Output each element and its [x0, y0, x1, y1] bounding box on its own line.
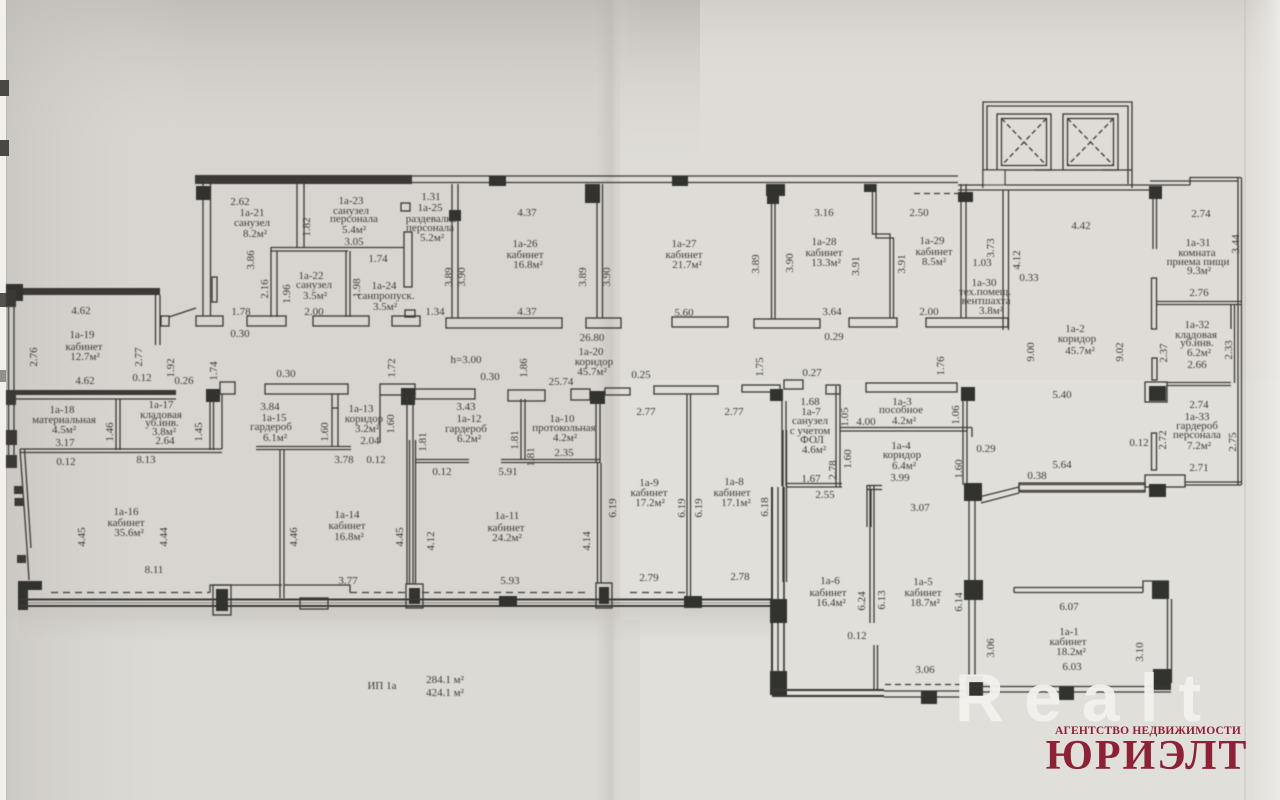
bar footing bottom wall left [300, 598, 328, 609]
svg-text:0.12: 0.12 [56, 456, 75, 468]
svg-text:0.26: 0.26 [174, 375, 194, 387]
svg-text:0.12: 0.12 [366, 454, 385, 466]
svg-text:18.2м²: 18.2м² [1056, 646, 1086, 658]
svg-text:2.37: 2.37 [1158, 343, 1170, 363]
room 1a-31 left wall [1152, 199, 1154, 249]
white page left edge [0, 0, 6, 800]
svg-text:3.07: 3.07 [910, 502, 930, 514]
footing under wall 28/29 [849, 318, 897, 327]
footing under wall 27/28 [754, 319, 820, 328]
main left outer wall slanted [20, 449, 27, 548]
room 1a-11 right wall [597, 463, 599, 583]
svg-text:6.19: 6.19 [693, 498, 705, 518]
svg-text:2.55: 2.55 [815, 489, 835, 501]
svg-text:8.11: 8.11 [145, 564, 164, 576]
svg-text:0.30: 0.30 [276, 368, 296, 380]
rooms 15/13 bottom wall [256, 446, 351, 448]
room 1a-17 right wall [209, 401, 211, 450]
lower piece wall 6/5 [873, 645, 875, 690]
stub right of wall 14 [416, 459, 469, 461]
svg-text:4.45: 4.45 [76, 527, 88, 547]
svg-text:6.19: 6.19 [676, 498, 688, 518]
svg-text:ЮРИЭЛТ: ЮРИЭЛТ [1046, 733, 1249, 779]
1a-33 left wall [1152, 433, 1157, 470]
centre fold crease [596, 0, 630, 800]
svg-text:0.29: 0.29 [976, 443, 996, 455]
svg-text:4.14: 4.14 [581, 531, 593, 551]
svg-text:6.07: 6.07 [1059, 601, 1079, 613]
left wing outer wall windows [8, 295, 10, 468]
pier 1a-3 right [961, 387, 975, 401]
svg-text:2.77: 2.77 [133, 347, 145, 367]
svg-text:1.86: 1.86 [518, 358, 530, 378]
diagonal link 1a-19 to block [169, 308, 196, 317]
corridor bar 1a-13/12 with pier [380, 384, 415, 395]
room 1a-3 top wall [866, 383, 957, 392]
svg-text:2.16: 2.16 [259, 279, 271, 299]
svg-text:1.45: 1.45 [193, 422, 205, 442]
svg-text:3.05: 3.05 [344, 236, 364, 248]
svg-text:2.04: 2.04 [360, 435, 380, 447]
room 1a-31 left wall pier [1149, 186, 1162, 199]
svg-text:6.2м²: 6.2м² [457, 433, 482, 445]
room 1a-14 left wall [279, 450, 281, 598]
svg-text:2.77: 2.77 [636, 406, 656, 418]
corridor bar over 1a-10 right [571, 389, 590, 400]
svg-text:3.06: 3.06 [985, 638, 997, 658]
piers on wall 5/1 [964, 483, 982, 501]
svg-text:h=3.00: h=3.00 [451, 354, 482, 366]
svg-text:21.7м²: 21.7м² [672, 259, 702, 271]
svg-text:4.46: 4.46 [288, 527, 300, 547]
paper lighter center sheet [620, 0, 1280, 800]
pier on wall 27/28 [766, 184, 785, 196]
pier bottom right of 1a-1 [1153, 669, 1171, 690]
svg-text:3.2м²: 3.2м² [355, 423, 380, 435]
corridor bar over 1a-9 [654, 386, 718, 394]
wall pier on top wall [489, 176, 506, 186]
svg-text:0.33: 0.33 [1019, 272, 1039, 284]
pier below 1a-4 right [965, 485, 979, 497]
svg-text:2.77: 2.77 [724, 406, 744, 418]
svg-text:18.7м²: 18.7м² [910, 597, 940, 609]
svg-text:2.66: 2.66 [1187, 359, 1207, 371]
svg-text:4.37: 4.37 [517, 207, 537, 219]
pier right wing bottom [1149, 484, 1166, 497]
svg-text:7.2м²: 7.2м² [1187, 440, 1212, 452]
main top wall under elevator block [958, 184, 1190, 186]
rooms 1a-3/1a-4 right wall [962, 401, 964, 485]
wall 1a-22 left [270, 247, 272, 317]
svg-text:0.29: 0.29 [824, 331, 844, 343]
svg-text:2.00: 2.00 [304, 306, 324, 318]
svg-text:284.1 м²: 284.1 м² [426, 674, 464, 686]
svg-text:4.62: 4.62 [75, 375, 94, 387]
pier 1a-10 top right [590, 391, 605, 404]
svg-text:1а-11: 1а-11 [495, 510, 520, 522]
svg-text:24.2м²: 24.2м² [492, 532, 522, 544]
footing under 1a-26 [446, 318, 562, 328]
svg-text:4.6м²: 4.6м² [802, 444, 827, 456]
svg-text:2.75: 2.75 [1227, 432, 1239, 452]
svg-text:3.16: 3.16 [814, 207, 834, 219]
svg-text:2.76: 2.76 [1189, 287, 1209, 299]
svg-text:1.03: 1.03 [972, 257, 992, 269]
corridor bar over 1a-8 [742, 385, 780, 392]
wall 1a-30 right (shaft wall) [1002, 190, 1004, 318]
svg-text:0.27: 0.27 [802, 367, 822, 379]
wall 1a-18 / 1a-17 [115, 399, 117, 450]
svg-text:1.60: 1.60 [842, 449, 854, 469]
svg-text:3.91: 3.91 [850, 256, 862, 275]
svg-text:1.60: 1.60 [953, 459, 965, 479]
room 1a-19 right wall [155, 295, 157, 345]
svg-text:3.91: 3.91 [896, 254, 908, 273]
svg-text:0.38: 0.38 [1027, 470, 1047, 482]
svg-text:5.2м²: 5.2м² [420, 232, 445, 244]
elevator shaft right [1063, 114, 1118, 170]
svg-text:4.12: 4.12 [1011, 250, 1023, 269]
svg-text:1.76: 1.76 [935, 356, 947, 376]
svg-text:1.96: 1.96 [281, 284, 293, 304]
svg-text:9.3м²: 9.3м² [1187, 265, 1212, 277]
svg-text:4.62: 4.62 [71, 305, 90, 317]
bottom-right section left thick wall [771, 487, 773, 690]
svg-text:0.25: 0.25 [631, 369, 651, 381]
rooms 17/18 bottom wall [20, 448, 222, 450]
top wall step right section [1190, 178, 1241, 186]
wall 1a-21 / 1a-23 [296, 184, 298, 247]
bottom wall 1a-5 [884, 690, 966, 692]
1a-19 wall tab [161, 316, 169, 326]
svg-text:2.74: 2.74 [1191, 208, 1211, 220]
svg-text:6.18: 6.18 [759, 497, 771, 517]
footing under 1a-27 [672, 317, 728, 327]
svg-text:1.60: 1.60 [385, 414, 397, 434]
svg-text:2.50: 2.50 [909, 207, 929, 219]
svg-text:3.89: 3.89 [443, 267, 455, 287]
svg-text:2.79: 2.79 [639, 572, 659, 584]
svg-text:3.06: 3.06 [915, 664, 935, 676]
room 1a-8 right wall [782, 430, 784, 582]
room 1a-18 top wall [6, 390, 176, 395]
svg-text:0.30: 0.30 [480, 371, 500, 383]
svg-text:45.7м²: 45.7м² [577, 366, 607, 378]
top wall of 1a-1 area (5.64 bar) [1019, 483, 1145, 492]
left shadow band [0, 0, 190, 800]
svg-text:3.73: 3.73 [985, 238, 997, 258]
room 1a-31/32 left wall lower [1152, 278, 1157, 329]
svg-text:16.8м²: 16.8м² [513, 259, 543, 271]
svg-text:45.7м²: 45.7м² [1065, 345, 1095, 357]
svg-text:1а-6: 1а-6 [820, 575, 840, 587]
1a-32 left stub [1152, 358, 1157, 380]
window ticks on left wall [14, 486, 23, 494]
svg-text:3.44: 3.44 [1230, 234, 1242, 254]
svg-text:4.5м²: 4.5м² [52, 424, 77, 436]
diagonal wall near 0.38 [979, 487, 1019, 497]
svg-text:коридор: коридор [1058, 333, 1097, 345]
wall 1a-27 / 1a-28 [771, 184, 773, 319]
svg-text:0.30: 0.30 [230, 328, 250, 340]
wall horizontal 21-22 / 23-24 [271, 247, 404, 249]
room 1a-4 bottom stubs [866, 485, 868, 527]
wall 1a-14 right thick [406, 395, 408, 584]
wall 1a-25 / 1a-26 [451, 184, 453, 318]
svg-text:9.02: 9.02 [1114, 342, 1126, 361]
svg-text:6.24: 6.24 [856, 591, 868, 611]
stub below bar 1a-15/13 [332, 394, 338, 408]
room 1a-1 top wall [1014, 587, 1143, 589]
svg-text:5.93: 5.93 [500, 575, 520, 587]
svg-text:26.80: 26.80 [580, 332, 605, 344]
footing under 1a-22/24 [313, 316, 369, 326]
svg-text:6.2м²: 6.2м² [1187, 347, 1212, 359]
svg-text:1.74: 1.74 [208, 361, 220, 381]
svg-text:9.00: 9.00 [1025, 342, 1037, 362]
wall 1a-5 / 1a-1 [968, 483, 970, 695]
svg-text:12.7м²: 12.7м² [70, 351, 100, 363]
svg-text:25.74: 25.74 [549, 376, 574, 388]
pier x597 [596, 583, 612, 608]
svg-text:8.5м²: 8.5м² [922, 256, 947, 268]
svg-text:1.74: 1.74 [368, 253, 388, 265]
bottom-left corner pier [18, 581, 42, 610]
svg-text:1.34: 1.34 [425, 306, 445, 318]
svg-text:2.78: 2.78 [827, 460, 839, 480]
svg-text:1.81: 1.81 [525, 447, 537, 466]
wall 1a-26 / 1a-27 [596, 184, 598, 318]
pier on wall 28/29 [864, 184, 876, 192]
left edge scan marks [0, 80, 9, 96]
room 1a-21 left outer wall [202, 184, 204, 316]
svg-text:35.6м²: 35.6м² [114, 527, 144, 539]
corridor 1a-2 left lower wall piece [1002, 318, 1004, 330]
main bottom wall double [20, 599, 772, 601]
svg-text:3.90: 3.90 [784, 253, 796, 273]
svg-text:16.8м²: 16.8м² [334, 531, 364, 543]
svg-text:0.12: 0.12 [432, 466, 451, 478]
dashed door 1a-29 [914, 193, 958, 195]
pier top of wall 29/30 [958, 192, 973, 202]
pier foot of wall 14 [406, 584, 423, 608]
svg-text:2.74: 2.74 [1189, 399, 1209, 411]
svg-text:2.35: 2.35 [554, 447, 574, 459]
left wing wall black segments [6, 290, 16, 307]
svg-text:1.05: 1.05 [839, 407, 851, 427]
wall 1a-28 / 1a-29 jog [873, 184, 891, 318]
svg-text:5.60: 5.60 [674, 307, 694, 319]
svg-text:3.8м²: 3.8м² [979, 305, 1004, 317]
svg-text:2.78: 2.78 [730, 571, 750, 583]
svg-text:0.12: 0.12 [1129, 437, 1148, 449]
bottom wall of 1a-6 thick [772, 689, 884, 691]
svg-text:17.2м²: 17.2м² [635, 497, 665, 509]
elevator shaft left [997, 114, 1051, 170]
svg-text:1.46: 1.46 [104, 422, 116, 442]
room 1a-10 right wall [595, 401, 597, 463]
svg-text:2.76: 2.76 [28, 347, 40, 367]
wall 1a-15 / 1a-13 [331, 408, 333, 446]
svg-text:1.60: 1.60 [319, 422, 331, 442]
top outer wall double line [412, 175, 958, 177]
wall pier on top wall [672, 176, 688, 186]
svg-text:6.14: 6.14 [953, 592, 965, 612]
svg-text:8.2м²: 8.2м² [243, 228, 268, 240]
svg-text:0.12: 0.12 [847, 630, 866, 642]
1a-1 top right step + pier [1143, 581, 1169, 593]
footing under 1a-22 left [247, 316, 286, 326]
svg-text:4.12: 4.12 [425, 531, 437, 550]
svg-text:3.89: 3.89 [577, 267, 589, 287]
svg-text:3.86: 3.86 [245, 250, 257, 270]
pier top of 1a-17 right wall [206, 389, 220, 402]
svg-text:2.71: 2.71 [1189, 462, 1208, 474]
footing right wing bottom [1145, 475, 1185, 487]
svg-text:2.00: 2.00 [919, 306, 939, 318]
svg-text:16.4м²: 16.4м² [816, 597, 846, 609]
pier on wall 25/26 [449, 210, 461, 221]
svg-text:3.10: 3.10 [1134, 642, 1146, 662]
svg-text:4.2м²: 4.2м² [553, 432, 578, 444]
svg-text:4.44: 4.44 [158, 527, 170, 547]
pier on wall 26/27 [585, 184, 600, 203]
svg-text:3.17: 3.17 [55, 437, 75, 449]
room 1a-15 left wall lower [221, 394, 223, 449]
wall 1a-6 / 1a-5 [869, 486, 871, 623]
svg-text:3.78: 3.78 [334, 454, 354, 466]
svg-text:3.90: 3.90 [601, 267, 613, 287]
svg-text:4.2м²: 4.2м² [892, 415, 917, 427]
svg-text:2.72: 2.72 [1157, 430, 1169, 449]
svg-text:4.45: 4.45 [394, 527, 406, 547]
svg-text:ИП 1а: ИП 1а [367, 680, 396, 692]
svg-text:0.12: 0.12 [132, 372, 151, 384]
wall 1a-3 / 1a-4 [840, 427, 972, 429]
wall 1a-13 / 1a-12 [379, 395, 381, 443]
svg-text:3.99: 3.99 [890, 472, 910, 484]
svg-text:6.4м²: 6.4м² [892, 460, 917, 472]
room 1a-10 bottom wall [501, 459, 600, 461]
svg-text:3.89: 3.89 [750, 254, 762, 274]
shaft bottom walls with door gaps [983, 169, 997, 171]
svg-text:1.67: 1.67 [801, 473, 821, 485]
svg-text:4.37: 4.37 [517, 306, 537, 318]
svg-text:1.81: 1.81 [509, 430, 521, 449]
svg-text:5.64: 5.64 [1052, 459, 1072, 471]
pier small x500 [499, 596, 517, 607]
top shadow band [0, 0, 700, 175]
footing under wall 26/27 [586, 318, 621, 328]
wall 1a-9 / 1a-8 [686, 394, 688, 596]
wall 1a-29 / 1a-30 [960, 184, 962, 318]
svg-text:13.3м²: 13.3м² [811, 257, 841, 269]
1a-32 inner stub [1230, 305, 1232, 329]
wall 1a-12 / 1a-10 [520, 399, 522, 460]
pier on bottom wall x215 [213, 585, 231, 615]
svg-text:424.1 м²: 424.1 м² [426, 687, 464, 699]
wall 1a-24 / 1a-25 pier [404, 232, 412, 287]
right wing outer wall [1237, 178, 1239, 486]
pier on bottom 1a-1 [1059, 686, 1074, 700]
pier wall 32/33 [1149, 386, 1166, 401]
corridor bar over 1a-10 left [508, 390, 545, 401]
footing under 29/30 walls [926, 318, 1008, 327]
svg-text:1.82: 1.82 [301, 217, 313, 236]
svg-text:4.00: 4.00 [856, 416, 876, 428]
svg-text:6.19: 6.19 [607, 498, 619, 518]
footing under 1a-24 right [392, 316, 420, 326]
svg-text:3.77: 3.77 [338, 575, 358, 587]
1a-33 bottom wall [1185, 481, 1241, 483]
elevator block outline [983, 102, 1132, 188]
svg-text:6.1м²: 6.1м² [263, 432, 288, 444]
svg-text:1.06: 1.06 [950, 405, 962, 425]
room 1a-19 corner pier [6, 284, 23, 301]
wall 1a-31 / 1a-32 [1157, 301, 1241, 303]
svg-text:1.75: 1.75 [754, 357, 766, 377]
svg-text:8.13: 8.13 [136, 454, 156, 466]
right page edge light [1244, 0, 1280, 800]
svg-text:6.13: 6.13 [876, 590, 888, 610]
room 1a-1 right wall [1167, 599, 1169, 683]
svg-text:3.64: 3.64 [822, 306, 842, 318]
svg-text:3.5м²: 3.5м² [373, 301, 398, 313]
top outer wall thick bar [195, 175, 412, 184]
svg-text:1.78: 1.78 [231, 306, 251, 318]
bottom wall 1a-1 [966, 686, 1171, 688]
svg-text:1.81: 1.81 [417, 432, 429, 451]
svg-text:2.33: 2.33 [1223, 340, 1235, 360]
room 1a-19 top wall [6, 288, 160, 295]
svg-text:17.1м²: 17.1м² [721, 497, 751, 509]
svg-text:3.90: 3.90 [456, 267, 468, 287]
svg-text:4.42: 4.42 [1071, 220, 1090, 232]
pier on bottom 1a-5 [921, 691, 937, 704]
svg-text:5.4м²: 5.4м² [342, 224, 367, 236]
footing under wall 1a-21 [196, 316, 223, 326]
wall 1a-22 / 1a-24 [345, 251, 347, 317]
svg-text:1а-19: 1а-19 [69, 329, 95, 341]
svg-text:5.91: 5.91 [498, 466, 517, 478]
corridor 1a-2 bottom wall [1019, 484, 1145, 486]
svg-text:3.43: 3.43 [456, 401, 476, 413]
svg-text:3.5м²: 3.5м² [303, 290, 328, 302]
svg-text:2.64: 2.64 [155, 435, 175, 447]
wall 1a-32 / 1a-33 [1167, 382, 1231, 384]
dashed window line above bottom wall [51, 592, 210, 594]
piers on that wall [770, 599, 787, 623]
corridor bottom wall bar above 1a-15 [265, 384, 348, 394]
svg-text:1.72: 1.72 [386, 358, 398, 377]
svg-text:5.40: 5.40 [1052, 389, 1072, 401]
pier foot wall 9/8 [684, 596, 702, 608]
room 1a-7 walls [784, 380, 803, 389]
